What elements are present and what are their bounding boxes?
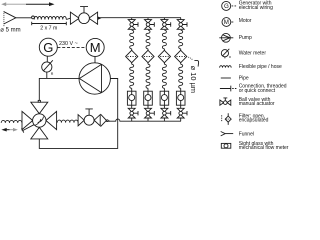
wire: stub from top manifold to valve V1a (131, 18, 133, 20)
svg-text:manual actuator: manual actuator (239, 101, 275, 107)
wire: stub from top manifold to valve V2a (147, 18, 149, 20)
flexible hose (branch 1 upper) (130, 30, 134, 49)
svg-text:Motor: Motor (239, 18, 252, 24)
svg-text:230 V ~: 230 V ~ (59, 41, 78, 47)
flexible hose (branch 2 lower) (146, 64, 150, 88)
wire: top manifold (98, 17, 181, 19)
wire: pump discharge loop (39, 79, 117, 149)
wire: stub from top manifold to valve V3a (163, 18, 165, 20)
svg-text:encapsulated: encapsulated (239, 117, 269, 123)
flow arrow (98, 17, 102, 20)
flexible hose (branch 1 lower) (130, 64, 134, 88)
multiport (4-way) valve with hand lever (22, 100, 57, 138)
wire: generator to water meter (46, 56, 48, 62)
svg-text:mechanical flow meter: mechanical flow meter (239, 145, 289, 151)
svg-text:Funnel: Funnel (239, 131, 254, 137)
svg-text:Pump: Pump (239, 35, 252, 41)
electrical wiring 230 V (57, 46, 86, 48)
svg-text:or quick connect: or quick connect (239, 88, 276, 94)
svg-text:G: G (224, 3, 229, 10)
legend icon: filter open encapsulated (222, 113, 232, 125)
ball valve V1a (branch 1 top) (128, 20, 138, 30)
svg-text:⌀ 10 µm: ⌀ 10 µm (189, 66, 198, 93)
ball valve V3a (branch 3 top) (161, 20, 171, 30)
sight glass with mechanical flow meter (branch 4) (176, 88, 185, 105)
wire: motor to pump shaft (94, 56, 96, 63)
water meter (42, 60, 53, 72)
motion arrow (bottom, bidirectional) (1, 128, 17, 132)
filter, open encapsulated (branch 4) (175, 49, 187, 65)
flexible hose (4-way valve to drain valve) (57, 120, 78, 123)
legend icon: funnel (221, 132, 234, 136)
sight glass with mechanical flow meter (branch 1) (127, 88, 136, 105)
flexible hose (branch 3 lower) (162, 64, 166, 88)
flexible hose (outlet, left of 4-way valve) (1, 120, 22, 123)
svg-text:Water meter: Water meter (239, 51, 267, 57)
svg-text:Pipe: Pipe (239, 76, 249, 82)
sight glass with mechanical flow meter (branch 2) (144, 88, 153, 105)
legend icon: generator with electrical wiring (222, 1, 237, 10)
svg-text:electrical wiring: electrical wiring (239, 5, 273, 11)
filter, open encapsulated (branch 3) (158, 49, 170, 65)
wire: stub from top manifold to valve V4a (180, 18, 182, 20)
sight glass with mechanical flow meter (branch 3) (160, 88, 169, 105)
pump P1 (79, 63, 110, 94)
legend icon: pump (219, 33, 233, 42)
ball valve V2b (branch 2 bottom) (145, 105, 155, 118)
wire: suction line to pump (39, 78, 79, 101)
legend icon: pipe (221, 77, 231, 79)
legend icon: sight glass with mechanical flow meter (221, 143, 231, 148)
leader for filter pore label (188, 57, 193, 60)
svg-text:R: R (229, 55, 231, 59)
svg-text:⌀ 5 mm: ⌀ 5 mm (0, 27, 20, 33)
wire: stub from valve V4b to bottom manifold (180, 118, 182, 121)
generator G with electrical wiring (39, 38, 57, 56)
wire: water meter down (46, 72, 48, 78)
motion arrow (top, bidirectional gray/black) (1, 2, 54, 6)
svg-text:Flexible pipe / hose: Flexible pipe / hose (239, 64, 282, 70)
ball valve V1b (branch 1 bottom) (128, 105, 138, 118)
dimension line 2 x 7 m (32, 22, 67, 25)
funnel (drain to manifold) (101, 114, 110, 126)
svg-text:G: G (43, 40, 53, 55)
svg-text:2 x 7 m: 2 x 7 m (40, 26, 57, 32)
wire: stub from valve V1b to bottom manifold (131, 118, 133, 121)
wire: funnel to hose (16, 17, 31, 19)
ball valve V4a (branch 4 top) (177, 20, 187, 30)
ball valve V2a (branch 2 top) (145, 20, 155, 30)
flexible hose (branch 2 upper) (146, 30, 150, 49)
svg-text:M: M (90, 40, 101, 55)
flexible hose (branch 4 upper) (179, 30, 183, 49)
legend icon: motor (222, 18, 233, 27)
flexible hose 2 x 7 m (top) (32, 16, 35, 19)
ball valve V1 (main inlet valve) (70, 7, 97, 25)
wire: stub from valve V2b to bottom manifold (147, 118, 149, 121)
funnel (inlet, ⌀ 5 mm nozzle) (4, 11, 16, 27)
flexible hose (branch 3 upper) (162, 30, 166, 49)
flexible hose (branch 4 lower) (179, 64, 183, 88)
legend icon: connection threaded / quick connect (220, 86, 237, 92)
legend icon: ball valve with manual actuator (220, 98, 231, 105)
svg-text:M: M (224, 19, 229, 26)
filter, open encapsulated (branch 2) (142, 49, 154, 65)
wire: stub from valve V3b to bottom manifold (163, 118, 165, 121)
motor M1 (86, 38, 104, 56)
svg-text:R: R (51, 72, 54, 76)
ball valve V3b (branch 3 bottom) (161, 105, 171, 118)
ball valve V2 (drain valve) (78, 109, 100, 126)
legend icon: water meter (221, 49, 229, 59)
filter, open encapsulated (branch 1) (126, 49, 138, 65)
ball valve V4b (branch 4 bottom) (177, 105, 187, 118)
legend icon: flexible pipe / hose (220, 66, 232, 68)
wire: bottom manifold with crossover jump (108, 119, 181, 121)
